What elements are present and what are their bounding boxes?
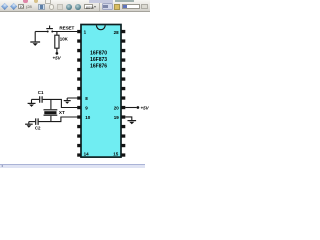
toolbar icon faint: [57, 4, 63, 10]
wire OSC1 net C1 left: [32, 98, 40, 100]
svg-text:20: 20: [114, 105, 120, 110]
wire OSC2 net C2 left: [29, 121, 35, 123]
scrollbar left arrow: [1, 165, 3, 167]
search field: [122, 4, 140, 10]
svg-text:RESET: RESET: [59, 25, 74, 30]
cut-off icon white: [45, 0, 51, 4]
wire C1 to ground: [31, 99, 33, 103]
svg-text:C2: C2: [35, 126, 41, 131]
wire pin20 VDD to +5V: [125, 107, 136, 109]
toolbar background: [0, 0, 150, 12]
right small button: [141, 4, 147, 10]
toolbar icon teal circle 1: [66, 4, 72, 10]
ground pin19: [128, 121, 137, 125]
schematic svg: [0, 0, 150, 170]
wire pin19 VSS to ground: [125, 117, 132, 120]
IC right pins 15-28: [121, 30, 125, 157]
switch S1 stem: [49, 26, 51, 29]
svg-text:XT: XT: [59, 110, 65, 115]
crystal XT plates and body: [44, 110, 58, 115]
page count text: [26, 5, 33, 9]
cut-off icon pink: [23, 0, 28, 3]
svg-text:C1: C1: [38, 90, 44, 95]
wire reset button left: [35, 31, 47, 33]
toolbar divider: [99, 3, 100, 11]
crystal XT bottom stem: [50, 116, 52, 122]
IC part numbers: [90, 50, 107, 69]
crystal XT top stem: [50, 99, 52, 109]
IC notch: [96, 25, 105, 29]
svg-text:15: 15: [113, 152, 119, 157]
svg-text:10K: 10K: [60, 37, 69, 42]
capacitor C2 plates: [36, 118, 38, 125]
ground C2: [25, 124, 33, 128]
toolbar icon teal circle 2: [75, 4, 81, 10]
horizontal scrollbar: [0, 164, 145, 169]
toolbar icon blue square: [38, 4, 45, 11]
wire to ground left of switch: [34, 32, 36, 42]
page number field: [18, 4, 24, 9]
svg-text:16F873: 16F873: [90, 57, 107, 63]
ground pin8: [64, 101, 71, 104]
+5V tap dot right: [137, 106, 140, 109]
svg-text:14: 14: [84, 152, 90, 157]
ground reset: [30, 42, 40, 46]
svg-text:+5V: +5V: [141, 105, 150, 110]
resistor R1 lead bottom: [56, 48, 58, 52]
capacitor C1 plates: [40, 96, 42, 103]
svg-text:10: 10: [85, 115, 91, 120]
wire OSC2 net C2 right to pin10: [39, 117, 78, 122]
svg-text:+5V: +5V: [53, 55, 62, 60]
IC U1 16F870/873/876 body: [81, 25, 121, 158]
svg-text:16F876: 16F876: [90, 64, 107, 70]
svg-text:19: 19: [114, 115, 120, 120]
resistor R1 10K: [55, 35, 59, 48]
toolbar nav button next: [10, 3, 18, 11]
wire C2 to ground: [28, 122, 30, 124]
switch S1 contacts: [47, 31, 54, 33]
svg-text:16F870: 16F870: [90, 50, 107, 56]
svg-text:28: 28: [114, 30, 120, 35]
wire OSC1 net C1 right to pin9: [43, 99, 78, 107]
zoom dropdown arrow: [94, 6, 96, 8]
pin number labels: [84, 29, 120, 156]
search blue text: [123, 5, 128, 7]
wire pin8 VSS: [67, 98, 77, 100]
wire RESET net to pin1: [53, 31, 78, 33]
ground C1: [28, 103, 36, 107]
yellow icon: [114, 4, 120, 10]
toolbar icon magnifier: [49, 4, 55, 10]
zoom percent box: [84, 4, 93, 9]
switch S1 actuator bar: [46, 28, 53, 30]
IC left pins 1-14: [77, 30, 81, 157]
lavender dropdown button: [102, 3, 114, 11]
toolbar nav button prev: [1, 3, 9, 11]
cut-off lavender band: [89, 0, 113, 3]
cut-off teal band: [115, 0, 134, 2]
resistor R1 lead top: [56, 32, 58, 36]
cut-off icon gold: [34, 0, 39, 3]
+5V tap dot left: [56, 52, 59, 55]
